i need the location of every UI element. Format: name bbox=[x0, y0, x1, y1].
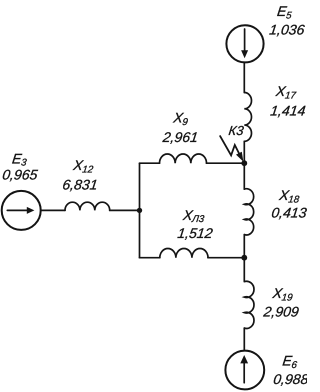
wire bottom branch left segment bbox=[140, 257, 160, 259]
inductor X19 bbox=[244, 281, 254, 328]
svg-text:0,988: 0,988 bbox=[273, 371, 308, 387]
svg-text:6,831: 6,831 bbox=[62, 176, 99, 192]
inductor X9 bbox=[160, 154, 207, 163]
wire bottom branch right segment bbox=[208, 257, 244, 259]
inductor X13 bbox=[160, 248, 208, 257]
inductor X17 bbox=[244, 93, 251, 142]
wire X12 to parallel branch bbox=[110, 209, 140, 211]
svg-text:2,909: 2,909 bbox=[262, 303, 300, 319]
source E5 bbox=[226, 25, 263, 62]
inductor X12 bbox=[65, 202, 110, 210]
svg-text:1,036: 1,036 bbox=[269, 22, 306, 38]
wire bottom node to X19 bbox=[243, 258, 245, 282]
wire X18 to bottom node bbox=[243, 235, 245, 258]
svg-text:0,965: 0,965 bbox=[2, 167, 39, 183]
wire top branch right segment bbox=[207, 162, 245, 164]
svg-text:0,413: 0,413 bbox=[271, 204, 307, 220]
wire left vertical of parallel branch bbox=[139, 163, 141, 258]
svg-text:1,414: 1,414 bbox=[270, 103, 307, 119]
svg-text:1,512: 1,512 bbox=[177, 225, 214, 241]
source E3 bbox=[2, 191, 41, 230]
node bottom junction dot bbox=[241, 255, 247, 261]
wire node K3 to X18 bbox=[243, 163, 245, 189]
wire E3 to X12 bbox=[41, 209, 65, 211]
wire top branch left segment bbox=[140, 162, 160, 164]
node K3 junction dot bbox=[241, 160, 247, 166]
wire E5 to X17 bbox=[243, 62, 245, 92]
short-circuit marker K3 (lightning arrow) bbox=[220, 136, 243, 162]
svg-text:К3: К3 bbox=[228, 123, 245, 138]
source E6 bbox=[225, 351, 264, 390]
wire X17 to node K3 bbox=[243, 141, 245, 163]
inductor X18 bbox=[244, 189, 253, 235]
svg-text:2,961: 2,961 bbox=[161, 129, 199, 145]
node at left vertical junction bbox=[137, 208, 142, 213]
wire X19 to E6 bbox=[243, 328, 245, 351]
